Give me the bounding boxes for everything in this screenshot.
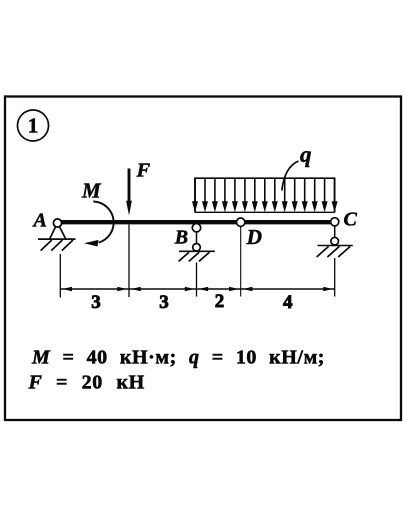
link support C: ground line (318, 245, 353, 247)
svg-text:M = 40 кН·м; q = 10 кН/м;: M = 40 кН·м; q = 10 кН/м; (31, 347, 325, 369)
dimension line (60, 288, 335, 290)
dim arrow at C pointing right (323, 287, 333, 292)
link support C: upper hinge circle (331, 218, 339, 226)
svg-text:B: B (174, 227, 188, 249)
extension line below D (240, 227, 242, 297)
dim arrow at A pointing left (63, 287, 73, 292)
svg-text:A: A (32, 209, 47, 231)
svg-text:q: q (300, 142, 312, 167)
svg-text:1: 1 (28, 114, 39, 138)
pin support A: triangle legs (50, 226, 66, 238)
extension line below F (128, 225, 130, 298)
link support C: hatching (317, 246, 351, 257)
force F arrow shaft (128, 169, 131, 204)
link support B: hatching (179, 252, 210, 261)
distributed load q: top line (194, 177, 335, 179)
svg-text:3: 3 (159, 292, 169, 313)
pin support A: ground line (38, 238, 76, 240)
link support B: ground line (179, 250, 215, 252)
q leader line (282, 161, 299, 191)
link support C: lower hinge circle (331, 237, 339, 245)
distributed load q: arrows (192, 179, 338, 212)
link support C: rod (334, 226, 336, 238)
link support B: lower hinge circle (193, 244, 201, 252)
extension line below A (59, 254, 61, 298)
distributed load q: right edge (334, 178, 336, 212)
link support B: rod (196, 232, 198, 244)
dim arrows at D line (229, 287, 239, 292)
dim arrows at F line (117, 287, 127, 292)
pin support A: hatching (41, 240, 73, 251)
svg-text:D: D (246, 225, 263, 249)
extension line below B (196, 263, 198, 297)
dim arrows at B line (185, 287, 195, 292)
pin support A: hinge circle (53, 219, 61, 227)
svg-text:F: F (136, 160, 151, 182)
beam AC (59, 220, 332, 224)
variant circle badge (18, 110, 49, 141)
svg-text:C: C (344, 209, 358, 231)
moment M arrowhead (84, 240, 99, 247)
svg-text:3: 3 (91, 292, 101, 313)
extension line below C (334, 258, 336, 297)
hinge D circle (237, 218, 245, 226)
distributed load q: bottom line (195, 211, 335, 213)
moment M arc (93, 202, 113, 243)
svg-text:F = 20 кН: F = 20 кН (28, 372, 145, 394)
distributed load q: left edge (194, 178, 196, 212)
force F arrowhead (126, 201, 132, 216)
frame border (5, 97, 401, 421)
svg-text:M: M (81, 179, 102, 203)
svg-text:4: 4 (283, 292, 293, 313)
svg-text:2: 2 (215, 291, 225, 312)
link support B: upper hinge circle (192, 224, 200, 232)
